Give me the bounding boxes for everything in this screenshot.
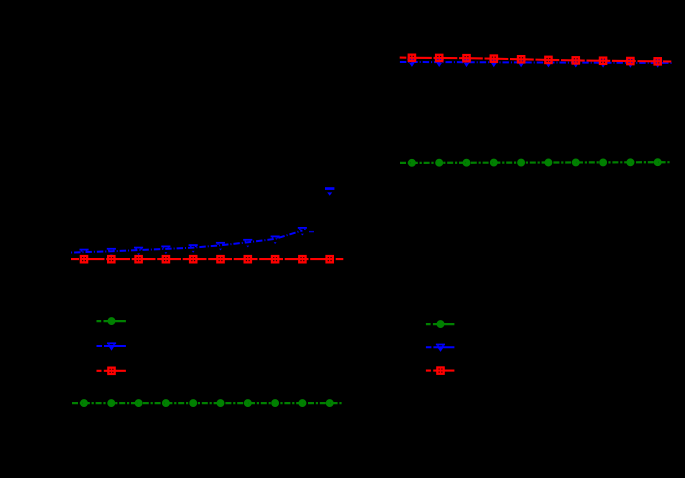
faint dash of blue segment toward last point (left panel) (309, 231, 314, 232)
legend key: blue triangles series (right panel) (426, 344, 455, 352)
blue series line (left panel) (71, 230, 302, 252)
blue triangle markers (left panel) (80, 187, 335, 257)
legend key: green circles series (left panel) (97, 318, 126, 325)
green circle markers (right panel) (409, 159, 660, 166)
red series line (left panel) (71, 258, 343, 260)
legend key: green circles series (right panel) (426, 321, 455, 328)
red square markers (right panel) (409, 55, 661, 65)
blue series line (right panel) (400, 62, 673, 63)
red square markers (left panel) (81, 256, 333, 262)
legend key: blue triangles series (left panel) (97, 342, 126, 350)
legend key: red squares series (right panel) (426, 367, 455, 373)
red series line (right panel) (400, 58, 672, 62)
legend key: red squares series (left panel) (97, 368, 126, 374)
blue triangle markers (right panel) (407, 59, 662, 68)
green series line (right panel) (400, 161, 671, 164)
green circle markers (left panel) (81, 400, 332, 407)
green series line (left panel) (71, 402, 343, 404)
